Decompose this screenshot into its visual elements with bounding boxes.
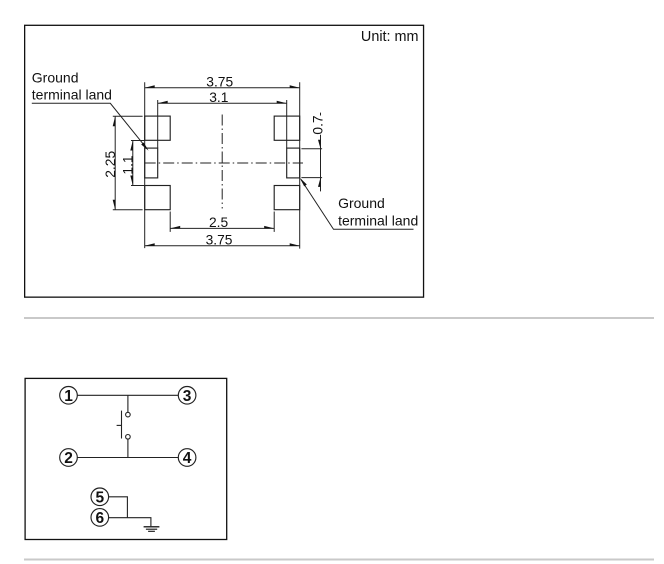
extension lines 0.7 — [301, 148, 322, 150]
terminal circle 2 — [60, 449, 78, 467]
extension lines 3.1 — [157, 100, 159, 148]
svg-text:5: 5 — [95, 489, 104, 506]
switch movable bar — [121, 411, 123, 439]
dimension 3.1 — [158, 102, 287, 104]
switch contact lower — [126, 435, 131, 440]
svg-text:6: 6 — [95, 510, 104, 527]
wire 2-4 — [77, 457, 178, 459]
wire 5 to junction — [109, 497, 128, 518]
leader line bottom-right — [301, 179, 414, 229]
dimension 3.75 bottom — [145, 245, 300, 247]
switch bar tick — [117, 424, 122, 426]
svg-text:3.75: 3.75 — [206, 232, 233, 247]
ground pad mid-left — [145, 148, 158, 178]
svg-text:2.25: 2.25 — [103, 151, 118, 178]
wire 6 to ground — [109, 518, 151, 527]
svg-text:2: 2 — [64, 450, 73, 467]
svg-text:4: 4 — [183, 450, 192, 467]
switch lower stub — [127, 439, 129, 457]
extension lines 1.1 — [131, 140, 145, 142]
svg-text:1.1: 1.1 — [121, 155, 136, 174]
terminal circle 6 — [91, 509, 109, 527]
pad top-left — [145, 116, 171, 140]
extension lines 2.5 — [169, 212, 171, 232]
extension line left outer — [144, 82, 146, 248]
separator line 2 — [24, 559, 654, 561]
dimension 3.75 top — [145, 87, 300, 89]
svg-text:1: 1 — [64, 388, 73, 405]
svg-text:2.5: 2.5 — [209, 215, 229, 230]
ground — [144, 526, 160, 528]
dimension 2.5 bottom — [170, 227, 274, 229]
terminal circle 5 — [91, 488, 109, 506]
svg-text:3.75: 3.75 — [206, 75, 233, 90]
svg-text:3: 3 — [183, 388, 192, 405]
terminal circle 1 — [60, 387, 78, 405]
svg-text:Unit: mm: Unit: mm — [361, 29, 419, 45]
switch upper stub — [127, 395, 129, 412]
ground pad mid-right — [287, 148, 300, 178]
svg-text:3.1: 3.1 — [209, 90, 228, 105]
pad top-right — [274, 116, 300, 140]
extension line right outer — [299, 82, 301, 248]
svg-text:terminal land: terminal land — [32, 87, 112, 103]
separator line 1 — [24, 317, 654, 319]
wire 1-3 — [77, 394, 178, 396]
pad bottom-left — [145, 186, 171, 210]
terminal circle 3 — [178, 387, 196, 405]
switch contact upper — [126, 412, 131, 417]
svg-text:Ground: Ground — [338, 195, 385, 211]
centerline horizontal — [145, 162, 303, 164]
svg-text:Ground: Ground — [32, 70, 79, 86]
outer frame of land-pattern figure — [25, 25, 424, 297]
leader line top-left — [32, 103, 147, 148]
frame of schematic figure — [25, 378, 227, 539]
svg-text:0.7: 0.7 — [310, 115, 325, 134]
extension lines 2.25 — [113, 115, 143, 117]
dimension 0.7 — [320, 113, 322, 116]
terminal circle 4 — [178, 449, 196, 467]
dimension 1.1 — [132, 141, 134, 186]
pad bottom-right — [274, 186, 300, 210]
svg-text:terminal land: terminal land — [338, 213, 418, 229]
dimension 2.25 — [114, 116, 116, 209]
centerline vertical — [221, 115, 223, 209]
